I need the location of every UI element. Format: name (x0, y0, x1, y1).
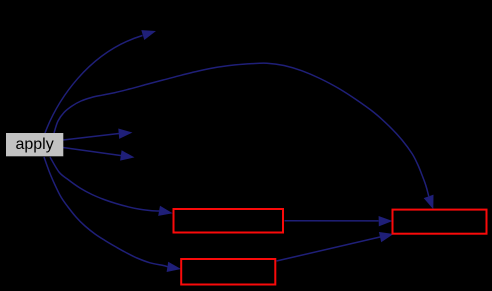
svg-text:apply: apply (15, 136, 53, 153)
